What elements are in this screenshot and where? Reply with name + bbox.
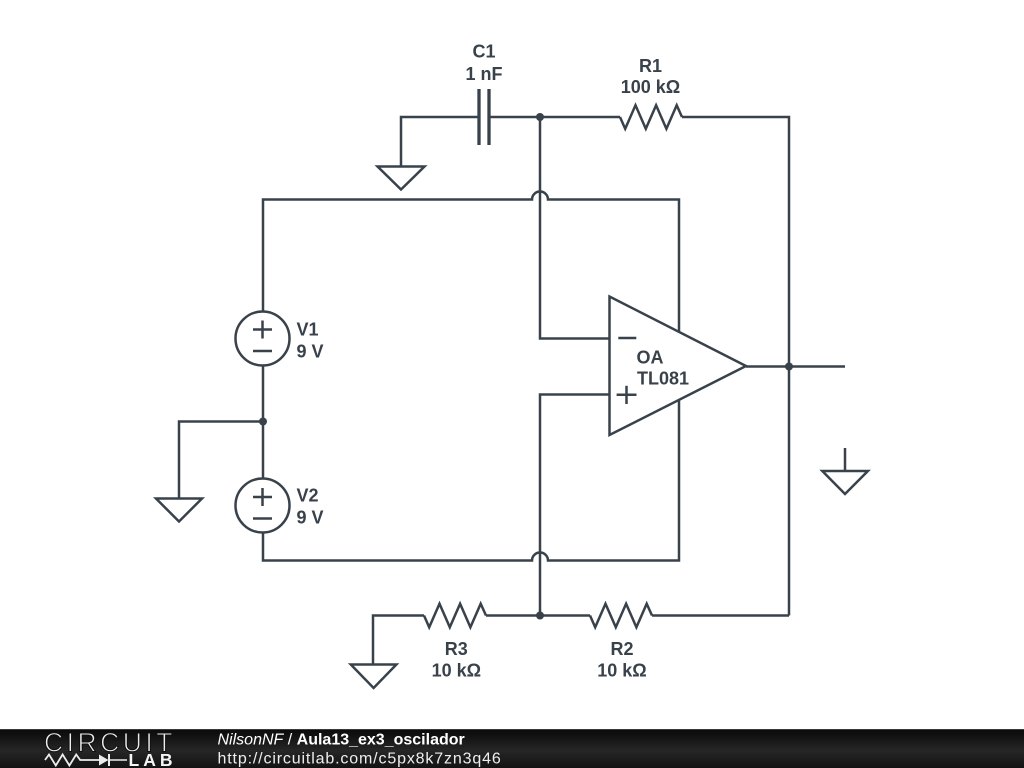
resistor R1 <box>620 105 682 129</box>
svg-text:R1: R1 <box>639 56 662 76</box>
svg-text:V2: V2 <box>297 486 319 506</box>
voltage source V2 <box>236 479 290 533</box>
svg-text:9 V: 9 V <box>297 507 324 527</box>
voltage source V1 <box>236 312 290 366</box>
wire <box>263 399 679 561</box>
footer bar <box>0 729 1024 768</box>
resistor R2 <box>590 604 652 628</box>
svg-text:C1: C1 <box>472 42 495 62</box>
svg-text:1 nF: 1 nF <box>465 64 502 84</box>
wire <box>682 117 789 616</box>
node <box>785 363 793 371</box>
svg-text:9 V: 9 V <box>297 341 324 361</box>
wire <box>746 365 845 368</box>
wire <box>373 616 424 665</box>
node <box>536 113 544 121</box>
wire <box>652 614 789 617</box>
wire <box>263 192 679 332</box>
wire <box>540 117 610 339</box>
svg-text:10 kΩ: 10 kΩ <box>597 661 646 681</box>
svg-text:NilsonNF / Aula13_ex3_oscilado: NilsonNF / Aula13_ex3_oscilador <box>218 732 465 749</box>
node <box>536 612 544 620</box>
svg-text:http://circuitlab.com/c5px8k7z: http://circuitlab.com/c5px8k7zn3q46 <box>218 751 502 768</box>
svg-text:V1: V1 <box>297 320 319 340</box>
CircuitLab logo <box>44 728 176 768</box>
node <box>259 418 267 426</box>
wire <box>489 116 620 119</box>
resistor R3 <box>424 604 486 628</box>
svg-text:10 kΩ: 10 kΩ <box>432 661 481 681</box>
wire <box>179 422 263 499</box>
svg-text:R2: R2 <box>610 639 633 659</box>
ground <box>822 448 868 494</box>
ground <box>351 665 397 689</box>
svg-text:R3: R3 <box>445 639 468 659</box>
wire <box>540 395 610 616</box>
capacitor C1 <box>479 89 489 145</box>
op-amp U1 <box>610 297 747 436</box>
svg-text:OA: OA <box>637 348 664 368</box>
svg-text:LAB: LAB <box>129 750 177 768</box>
wire <box>486 614 590 617</box>
ground <box>156 499 202 522</box>
ground <box>378 167 425 190</box>
wire <box>401 117 479 167</box>
svg-text:TL081: TL081 <box>637 369 689 389</box>
svg-text:100 kΩ: 100 kΩ <box>621 77 680 97</box>
wire <box>262 367 265 480</box>
